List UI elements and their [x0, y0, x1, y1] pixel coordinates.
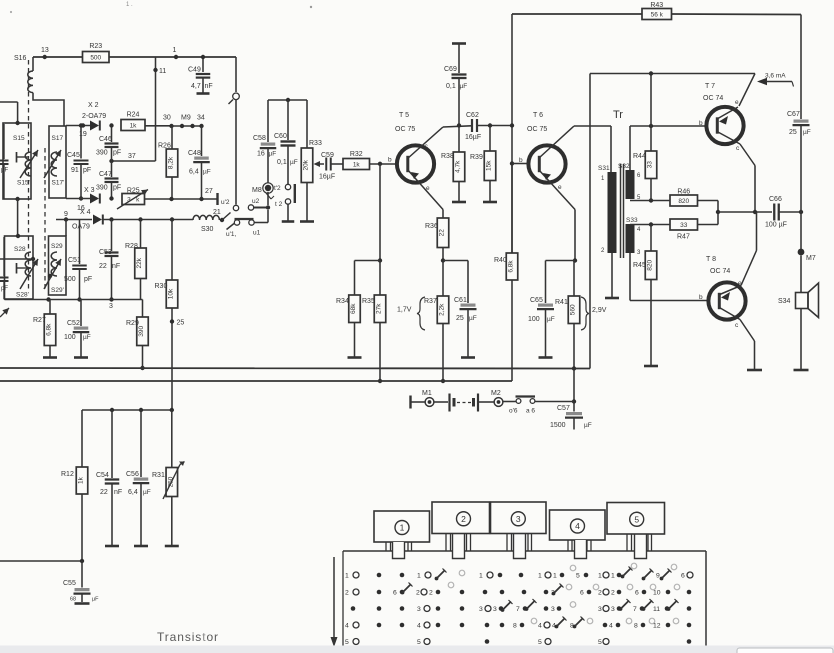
svg-text:C59: C59	[321, 152, 334, 159]
svg-text:S33: S33	[626, 217, 638, 224]
T8 internal leads	[719, 286, 742, 320]
svg-text:C62: C62	[466, 112, 479, 119]
svg-text:0,1: 0,1	[277, 159, 287, 166]
potentiometer R33	[300, 100, 324, 222]
capacitor C69	[444, 44, 467, 126]
resistor R40	[494, 164, 518, 382]
chassis panel	[343, 551, 706, 646]
svg-text:µF: µF	[584, 422, 592, 429]
resistor R12	[61, 410, 88, 561]
svg-text:M9: M9	[181, 115, 191, 122]
capacitor C54	[96, 410, 122, 546]
svg-text:68k: 68k	[350, 303, 357, 314]
bottom ui strip	[0, 646, 834, 653]
open contact end	[233, 205, 238, 210]
svg-text:6,8k: 6,8k	[508, 260, 515, 273]
svg-text:µF: µF	[203, 169, 211, 176]
svg-text:C46: C46	[99, 136, 112, 143]
svg-text:R27: R27	[33, 317, 46, 324]
capacitor C60	[274, 100, 298, 184]
svg-text:6,8k: 6,8k	[46, 323, 53, 336]
coil S16	[28, 57, 64, 126]
svg-text:C67: C67	[787, 111, 800, 118]
svg-text:16: 16	[257, 151, 265, 158]
svg-text:R46: R46	[677, 189, 690, 196]
svg-text:3: 3	[551, 606, 555, 613]
svg-text:C61: C61	[454, 297, 467, 304]
S32 pin6 wire to T7 base	[630, 124, 706, 170]
svg-text:21: 21	[213, 209, 221, 216]
svg-text:u'1,: u'1,	[226, 231, 236, 238]
capacitor C67	[787, 111, 811, 249]
svg-text:820: 820	[647, 259, 654, 270]
svg-text:16µF: 16µF	[465, 134, 481, 141]
variable resistor R25	[117, 188, 148, 210]
svg-text:Tr: Tr	[613, 109, 623, 121]
tuned circuit S28 box	[5, 234, 34, 299]
svg-text:R37: R37	[424, 298, 437, 305]
svg-text:R30: R30	[155, 283, 168, 290]
svg-text:S32: S32	[618, 163, 630, 170]
svg-text:R31: R31	[152, 472, 165, 479]
svg-text:S29': S29'	[51, 287, 64, 294]
svg-text:390: 390	[96, 150, 108, 157]
svg-text:C51: C51	[68, 257, 81, 264]
svg-text:10k: 10k	[168, 288, 175, 299]
capacitor C46	[96, 123, 121, 161]
svg-text:4: 4	[538, 623, 542, 630]
svg-text:R34: R34	[336, 298, 349, 305]
svg-text:C53: C53	[99, 249, 112, 256]
vertical S15 bottom to S28 top	[17, 199, 19, 236]
wire AF filter top	[82, 408, 174, 412]
T6 base wire	[512, 163, 528, 165]
contact t'2	[274, 184, 291, 192]
link M9	[172, 115, 202, 129]
svg-text:C52: C52	[67, 320, 80, 327]
svg-text:S16: S16	[14, 55, 27, 62]
svg-text:M1: M1	[422, 390, 432, 397]
svg-text:9: 9	[656, 573, 660, 580]
svg-text:56 k: 56 k	[651, 12, 664, 19]
svg-text:a 6: a 6	[526, 408, 535, 415]
svg-text:R12: R12	[61, 471, 74, 478]
svg-text:µF: µF	[83, 334, 91, 341]
svg-text:S15': S15'	[17, 180, 30, 187]
svg-text:2-OA79: 2-OA79	[82, 113, 106, 120]
svg-text:500: 500	[90, 55, 101, 62]
svg-text:T 7: T 7	[705, 83, 715, 90]
variable resistor R31	[152, 410, 185, 546]
svg-text:560: 560	[570, 304, 577, 315]
svg-text:3: 3	[417, 606, 421, 613]
svg-text:1: 1	[598, 573, 602, 580]
transformer primary S31	[598, 165, 617, 254]
tuned circuit S17 box	[49, 126, 66, 198]
svg-text:820: 820	[678, 198, 689, 205]
svg-text:µF: µF	[547, 316, 555, 323]
svg-text:pF: pF	[1, 286, 8, 292]
contact grid	[345, 563, 693, 646]
coil S28	[17, 252, 32, 276]
svg-text:t 2: t 2	[275, 201, 283, 208]
svg-text:2,9V: 2,9V	[592, 307, 607, 314]
T6 collector wire	[539, 126, 611, 172]
svg-text:2: 2	[345, 590, 349, 597]
resistor R30	[155, 220, 178, 411]
svg-text:5: 5	[417, 639, 421, 646]
capacitor C58	[253, 100, 276, 183]
svg-text:3: 3	[516, 514, 521, 524]
svg-text:u1: u1	[253, 230, 261, 237]
svg-text:pF: pF	[113, 150, 121, 157]
svg-text:390: 390	[138, 325, 145, 336]
svg-text:S30: S30	[201, 226, 214, 233]
capacitor C53	[99, 220, 120, 302]
battery M cells	[434, 394, 494, 412]
wire node 27 row	[145, 197, 218, 201]
svg-text:1: 1	[611, 573, 615, 580]
wire left edge to S15 top	[0, 102, 18, 123]
long vertical from corner to switch u'2 branch	[235, 57, 237, 205]
svg-text:7: 7	[516, 606, 520, 613]
resistor R44	[633, 74, 657, 201]
svg-text:1: 1	[538, 573, 542, 580]
svg-text:500: 500	[64, 276, 76, 283]
svg-text:pF: pF	[113, 185, 121, 192]
transformer secondary S32	[618, 163, 641, 201]
svg-text:13: 13	[41, 47, 49, 54]
svg-text:t'2: t'2	[274, 185, 281, 192]
terminal u'2	[205, 188, 230, 206]
svg-text:1,7V: 1,7V	[397, 307, 412, 314]
pushbutton 5 legs	[627, 534, 652, 559]
resistor R26	[158, 126, 178, 199]
S33 pin3 wire to T8 base	[630, 253, 707, 301]
svg-text:µF: µF	[92, 597, 99, 603]
svg-text:34: 34	[197, 115, 205, 122]
tuned circuit S29	[49, 236, 67, 295]
svg-text:S29: S29	[51, 243, 63, 250]
pushbutton 1	[374, 511, 430, 542]
svg-text:1: 1	[417, 573, 421, 580]
arrow S29 arm	[44, 259, 61, 289]
node 13	[41, 47, 49, 59]
label 2,9V with brace	[581, 297, 607, 330]
supply wire to T7 emitter	[590, 71, 755, 106]
svg-text:2,2k: 2,2k	[439, 303, 446, 316]
svg-text:3,6 mA: 3,6 mA	[765, 73, 786, 80]
resistor R34	[336, 295, 362, 358]
svg-text:R29: R29	[126, 320, 139, 327]
svg-text:68: 68	[70, 597, 76, 603]
svg-text:2: 2	[416, 590, 420, 597]
svg-text:e: e	[558, 184, 562, 191]
S31 pin2 to ground bar	[605, 253, 619, 298]
svg-text:12: 12	[653, 623, 661, 630]
svg-text:3 k: 3 k	[127, 197, 140, 204]
resistor R24	[121, 112, 145, 131]
T7 collector wire	[740, 144, 757, 214]
upper supply rail	[0, 366, 590, 370]
svg-text:1 .: 1 .	[126, 2, 133, 8]
contact t 2	[275, 199, 291, 208]
svg-text:C45: C45	[67, 152, 80, 159]
svg-text:2: 2	[429, 590, 433, 597]
node 25	[170, 319, 185, 326]
svg-text:4: 4	[417, 623, 421, 630]
resistor R47	[670, 219, 698, 241]
loudspeaker S34	[778, 256, 819, 371]
wire node 3 row	[5, 297, 143, 310]
capacitor C45	[67, 123, 91, 200]
svg-text:R39: R39	[470, 154, 483, 161]
svg-text:8: 8	[634, 623, 638, 630]
svg-text:3: 3	[479, 606, 483, 613]
tuned circuit S15 box	[3, 121, 31, 201]
wire node 37	[109, 153, 155, 163]
svg-text:1: 1	[553, 573, 557, 580]
pushbutton 4	[550, 510, 606, 540]
resistor R45	[633, 225, 658, 367]
svg-text:C60: C60	[274, 133, 287, 140]
svg-text:X 2: X 2	[88, 102, 99, 109]
T5 emitter wire	[407, 169, 443, 210]
S33 pin4 wire	[630, 222, 670, 226]
svg-text:C66: C66	[769, 196, 782, 203]
pushbutton 3 legs	[507, 534, 532, 559]
wire R32 to T5 base	[370, 157, 397, 167]
capacitor C62	[465, 112, 512, 141]
svg-text:Transistor: Transistor	[157, 630, 219, 644]
svg-text:o'6: o'6	[509, 408, 518, 415]
svg-text:S31: S31	[598, 165, 610, 172]
svg-text:6: 6	[635, 590, 639, 597]
svg-text:33: 33	[680, 222, 688, 229]
svg-text:6,4: 6,4	[189, 169, 199, 176]
svg-text:11: 11	[159, 68, 166, 75]
switch contact on vertical	[229, 93, 240, 104]
svg-text:3: 3	[493, 606, 497, 613]
svg-text:1: 1	[400, 523, 405, 533]
svg-text:µF: µF	[803, 129, 811, 136]
resistor R39	[470, 126, 497, 203]
svg-text:µF: µF	[469, 315, 477, 322]
svg-text:8,2k: 8,2k	[168, 156, 175, 169]
svg-text:22: 22	[439, 229, 446, 237]
svg-text:S17: S17	[52, 135, 64, 142]
svg-text:X 4: X 4	[80, 209, 91, 216]
wire R36 to C61	[443, 260, 468, 262]
svg-text:OC 75: OC 75	[395, 126, 415, 133]
svg-text:µF: µF	[1, 168, 8, 174]
svg-text:µF: µF	[269, 151, 277, 158]
svg-text:1k: 1k	[78, 476, 85, 484]
capacitor C47	[96, 161, 121, 201]
svg-text:C56: C56	[126, 471, 139, 478]
capacitor C49	[188, 55, 213, 94]
transformer secondary S33	[626, 217, 642, 256]
svg-text:10: 10	[653, 590, 661, 597]
lower supply rail	[0, 380, 512, 382]
svg-text:T 8: T 8	[706, 256, 716, 263]
svg-text:R32: R32	[350, 151, 363, 158]
svg-text:nF: nF	[205, 83, 213, 90]
svg-text:22k: 22k	[136, 257, 143, 268]
capacitor C57	[550, 402, 592, 430]
svg-text:33: 33	[647, 161, 654, 169]
terminal	[411, 396, 425, 409]
svg-text:T 5: T 5	[399, 112, 409, 119]
inductor S15 core stub	[17, 152, 29, 163]
resistor R36	[425, 210, 449, 263]
svg-text:M8: M8	[252, 187, 262, 194]
label S16	[14, 55, 27, 62]
svg-text:µF: µF	[460, 83, 468, 90]
transistor T7 OC74	[699, 83, 744, 152]
T8 emitter wire	[741, 212, 757, 286]
svg-text:5: 5	[634, 514, 639, 524]
svg-text:u'2: u'2	[221, 199, 230, 206]
T5 base bias chain	[378, 164, 382, 263]
top rail	[512, 14, 801, 119]
svg-text:6: 6	[580, 590, 584, 597]
band switch u'1 u1	[226, 219, 261, 238]
svg-text:C48: C48	[188, 150, 201, 157]
measuring point M1	[422, 390, 434, 406]
svg-text:C55: C55	[63, 580, 76, 587]
svg-text:R25: R25	[127, 188, 140, 195]
svg-text:100: 100	[528, 316, 540, 323]
arrow S17 arm	[44, 150, 61, 178]
svg-text:1: 1	[479, 573, 483, 580]
svg-text:C57: C57	[557, 405, 570, 412]
transistor T8 OC74	[699, 256, 746, 329]
contact u2	[248, 198, 270, 210]
coil S17	[51, 152, 57, 176]
svg-text:µF: µF	[290, 159, 298, 166]
pushbutton 2	[432, 502, 490, 534]
svg-text:R36: R36	[425, 223, 438, 230]
svg-text:S15: S15	[13, 135, 25, 142]
T8 collector wire	[740, 320, 762, 371]
pushbutton 5	[607, 503, 665, 535]
resistor R38	[441, 126, 466, 203]
svg-text:b: b	[699, 120, 703, 127]
pushbutton 3	[491, 502, 547, 534]
feedback vertical R43 column	[510, 14, 514, 253]
label Tr	[613, 109, 623, 121]
wire u1 to M8 node	[254, 210, 268, 223]
svg-text:C69: C69	[444, 66, 457, 73]
direction arrow	[331, 557, 338, 647]
svg-text:1k: 1k	[353, 162, 361, 169]
svg-text:C58: C58	[253, 135, 266, 142]
svg-text:4,7k: 4,7k	[455, 160, 462, 173]
svg-text:R24: R24	[127, 112, 140, 119]
svg-text:S28: S28	[14, 246, 26, 253]
arrow S28 arm	[20, 259, 38, 289]
svg-text:R44: R44	[633, 153, 646, 160]
wire bottom left rail	[0, 559, 84, 563]
svg-text:1500: 1500	[550, 422, 566, 429]
svg-text:OC 74: OC 74	[703, 95, 723, 102]
svg-text:6: 6	[393, 590, 397, 597]
svg-text:1: 1	[345, 573, 349, 580]
capacitor C48	[188, 126, 211, 199]
resistor R29	[126, 300, 148, 371]
wire top bracket	[268, 98, 307, 102]
svg-text:S28': S28'	[16, 292, 29, 299]
svg-text:R41: R41	[555, 299, 568, 306]
svg-text:25: 25	[177, 320, 185, 327]
label Transistor	[157, 630, 219, 644]
svg-text:C65: C65	[530, 297, 543, 304]
label 3,6 mA arrow	[757, 73, 794, 87]
svg-text:91: 91	[71, 167, 79, 174]
capacitor at left edge (µF)	[0, 124, 9, 199]
svg-text:3: 3	[109, 303, 113, 310]
node 30	[163, 115, 174, 129]
wire X4 output row	[104, 217, 194, 221]
measuring point M2	[491, 390, 503, 406]
output node from R46 R47	[698, 201, 773, 225]
dashed gang line B	[44, 148, 46, 290]
svg-text:5: 5	[576, 573, 580, 580]
capacitor C66	[765, 196, 803, 229]
coil S15	[25, 152, 31, 176]
svg-text:3: 3	[611, 606, 615, 613]
resistor R23	[83, 43, 110, 63]
resistor R43	[642, 2, 672, 20]
svg-text:C49: C49	[188, 67, 201, 74]
svg-text:S34: S34	[778, 298, 791, 305]
T5 collector wire	[407, 123, 471, 159]
svg-text:4: 4	[575, 521, 580, 531]
svg-text:5: 5	[538, 639, 542, 646]
svg-text:b: b	[699, 294, 703, 301]
svg-text:100: 100	[64, 334, 76, 341]
svg-text:u2: u2	[252, 198, 260, 205]
svg-text:C47: C47	[99, 171, 112, 178]
svg-text:19: 19	[79, 131, 87, 138]
node 34	[197, 115, 205, 129]
capacitor C56	[126, 410, 151, 546]
svg-text:e: e	[735, 99, 739, 106]
wire R41 to C57 node	[572, 369, 576, 404]
svg-text:nF: nF	[112, 263, 120, 270]
wire R24 to node 30	[145, 125, 172, 127]
S32 pin5 wire	[630, 198, 670, 202]
svg-text:b: b	[388, 157, 392, 164]
T6 emitter wire	[539, 170, 575, 261]
svg-text:37: 37	[128, 153, 136, 160]
resistor R37	[424, 261, 449, 384]
svg-text:4,7: 4,7	[191, 83, 201, 90]
svg-text:OA79: OA79	[72, 224, 90, 231]
svg-text:R43: R43	[650, 2, 663, 9]
wire left edge into S28	[0, 257, 35, 261]
svg-text:OC 74: OC 74	[710, 268, 730, 275]
pushbutton 1 legs	[386, 542, 412, 559]
resistor R41	[555, 261, 580, 370]
capacitor C52	[64, 300, 91, 358]
measuring point M8	[252, 183, 273, 205]
svg-text:100 µF: 100 µF	[765, 222, 787, 229]
T6 emitter node	[546, 258, 578, 262]
transformer core	[621, 164, 624, 258]
svg-text:5: 5	[345, 639, 349, 646]
